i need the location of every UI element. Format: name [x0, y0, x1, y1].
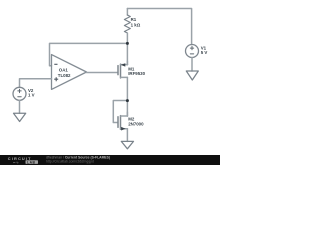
resistor R1: [124, 15, 130, 33]
op-amp plus sign: [54, 77, 58, 81]
wire R1 bottom to node A: [126, 33, 128, 43]
wire op-amp output to M1 gate: [87, 72, 118, 74]
watermark bar: [0, 155, 220, 165]
svg-text:IRF9530: IRF9530: [128, 71, 145, 76]
ground below V1: [186, 71, 198, 80]
svg-text:OA1: OA1: [59, 67, 69, 72]
transistor M2 arrow: [121, 127, 126, 131]
wire feedback horizontal: [50, 43, 128, 65]
voltage source V2: [13, 87, 26, 100]
ground below V2: [14, 113, 26, 121]
wire plus input from V2: [20, 79, 52, 88]
svg-text:http://circuitlab.com/c662mggp: http://circuitlab.com/c662mggpd: [46, 160, 94, 164]
ground below M2: [121, 141, 133, 148]
voltage source V1: [186, 45, 199, 58]
junction node A dot: [126, 42, 129, 45]
svg-text:R1: R1: [131, 17, 137, 22]
op-amp minus sign: [54, 63, 57, 65]
wire V1 to ground: [191, 58, 193, 72]
svg-text:TL082: TL082: [58, 73, 71, 78]
svg-text:1 V: 1 V: [28, 93, 35, 98]
wire M2 drain stub: [126, 112, 128, 116]
svg-text:5 V: 5 V: [201, 50, 208, 55]
wire V2 to ground: [19, 100, 21, 113]
op-amp OA1 triangle: [52, 55, 87, 90]
svg-text:LAB: LAB: [27, 160, 35, 164]
wire M1 source rail down to M2: [126, 77, 128, 116]
transistor M1 arrow: [121, 63, 126, 66]
svg-text:1 kΩ: 1 kΩ: [131, 23, 141, 28]
transistor M1 body: [117, 66, 119, 75]
junction M2 gate-drain dot: [126, 99, 129, 102]
svg-text:2N7000: 2N7000: [128, 121, 144, 126]
wire M2 diode loop: [113, 101, 127, 123]
svg-text:∾∿: ∾∿: [13, 160, 19, 164]
wire M2 source to ground: [126, 129, 128, 142]
wire node A to M1 drain: [126, 43, 128, 64]
wire M1 drain up: [126, 61, 128, 65]
transistor M2 body: [117, 117, 119, 128]
wire top rail: [127, 9, 191, 45]
wire R1 top stub: [126, 9, 128, 16]
